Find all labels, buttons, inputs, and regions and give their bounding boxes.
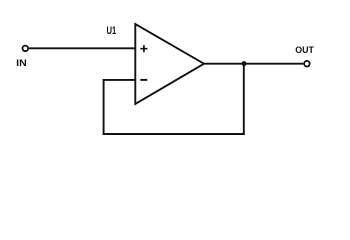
svg-text:OUT: OUT	[295, 45, 314, 55]
op-amp + input symbol	[140, 45, 147, 52]
wire feedback right vertical	[243, 63, 245, 135]
wire input to op-amp +	[29, 47, 136, 49]
svg-text:U1: U1	[107, 25, 117, 37]
junction dot output/feedback node	[242, 61, 247, 66]
wire inverting input stub	[103, 79, 136, 81]
input terminal IN	[23, 46, 29, 52]
svg-text:IN: IN	[16, 58, 27, 68]
wire feedback bottom rail	[103, 133, 245, 135]
output terminal OUT	[304, 61, 310, 67]
wire feedback left vertical	[103, 79, 105, 135]
op-amp U1	[135, 24, 204, 104]
wire output	[203, 63, 303, 65]
op-amp - input symbol	[140, 79, 147, 81]
